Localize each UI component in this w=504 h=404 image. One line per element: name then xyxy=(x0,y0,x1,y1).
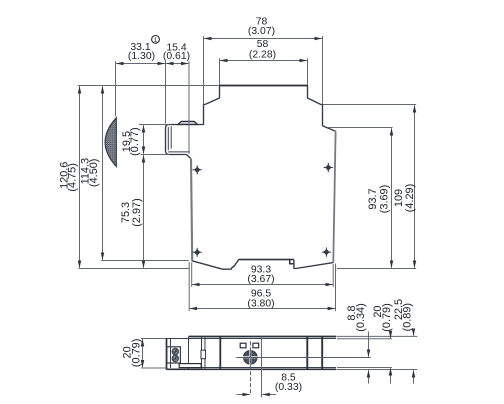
dimension 20 left xyxy=(141,339,166,369)
dimension 96.5 xyxy=(190,308,335,310)
ext lines right side (109 / 93.7) xyxy=(323,105,416,269)
ext lines 19.5 xyxy=(139,125,170,155)
svg-text:(0.79): (0.79) xyxy=(381,303,393,331)
svg-text:(3.07): (3.07) xyxy=(248,26,275,37)
ext lines 33.1 / 15.4 xyxy=(116,61,190,154)
svg-text:(4.75): (4.75) xyxy=(67,163,79,191)
latch inner lines xyxy=(168,126,190,152)
bottom notch xyxy=(290,260,294,264)
upper body outline xyxy=(220,86,336,132)
svg-text:(3.67): (3.67) xyxy=(247,274,274,285)
svg-text:(0.33): (0.33) xyxy=(275,382,302,393)
left long edge (light) xyxy=(191,158,192,260)
svg-text:(3.69): (3.69) xyxy=(378,185,390,213)
center screw xyxy=(244,351,258,365)
mounting cross mark bottom-right xyxy=(322,248,331,257)
footnote circle 1 xyxy=(152,36,160,44)
dimension 114.3 xyxy=(102,86,104,260)
dimension 15.4 xyxy=(166,63,188,65)
centerline horizontal xyxy=(236,357,370,359)
svg-text:(0.61): (0.61) xyxy=(163,51,190,62)
latch and left step xyxy=(166,86,220,159)
dimension 58 xyxy=(220,60,307,62)
ext lines 58 xyxy=(220,58,308,85)
side view body outline xyxy=(166,86,336,270)
sensing lens (hatched) xyxy=(105,118,116,167)
dimension 120.6 xyxy=(79,86,81,268)
svg-text:(1.30): (1.30) xyxy=(128,51,155,62)
svg-text:75.3: 75.3 xyxy=(120,202,132,223)
ext lines bottom dims 93.3 / 96.5 xyxy=(189,262,335,311)
dimension 78 xyxy=(204,38,322,40)
dimension 8.8 xyxy=(368,332,370,357)
svg-text:(0.79): (0.79) xyxy=(130,339,142,367)
mounting cross mark bottom-left xyxy=(193,248,202,257)
bottom view outline xyxy=(167,336,337,370)
mounting cross mark top-left xyxy=(193,165,202,174)
small square 2 xyxy=(253,343,259,348)
svg-text:(3.80): (3.80) xyxy=(247,298,274,309)
terminal screw 2 xyxy=(172,355,179,362)
svg-text:(0.89): (0.89) xyxy=(402,303,414,331)
dimension 93.7 xyxy=(391,128,393,268)
dimension 33.1 xyxy=(116,63,165,65)
dimension 22.5 xyxy=(413,330,415,336)
svg-text:(2.97): (2.97) xyxy=(131,198,143,226)
small square 1 xyxy=(240,343,246,348)
right side ext lines xyxy=(337,336,417,369)
bottom profile xyxy=(192,260,334,270)
centerline vertical dashed xyxy=(250,341,252,395)
svg-text:93.7: 93.7 xyxy=(367,188,379,209)
bottom plateau thick xyxy=(239,259,294,261)
svg-text:(0.34): (0.34) xyxy=(355,303,367,331)
side view top edge thick xyxy=(219,85,308,87)
latch bump xyxy=(178,121,198,124)
internal line 8.5 right xyxy=(261,337,263,398)
svg-text:(0.77): (0.77) xyxy=(129,127,141,155)
dimension 19.5 xyxy=(143,125,145,154)
right long edge (light) xyxy=(333,131,335,262)
ext line top of device xyxy=(78,85,219,87)
mounting cross mark top-right xyxy=(324,163,333,172)
svg-text:(4.50): (4.50) xyxy=(88,159,100,187)
svg-text:(2.28): (2.28) xyxy=(249,49,276,60)
ext line 114.3 bottom xyxy=(101,260,189,262)
dimension 75.3 xyxy=(143,155,145,268)
terminal screw 1 xyxy=(172,348,179,355)
svg-text:(4.29): (4.29) xyxy=(404,184,416,212)
terminal block xyxy=(167,347,181,363)
dimension 8.5 xyxy=(237,394,250,396)
dimension 109 xyxy=(414,105,416,268)
ext line bottom left (120.6 / 75.3) xyxy=(79,268,190,270)
svg-text:1: 1 xyxy=(154,37,158,44)
dimension 93.3 xyxy=(192,284,333,286)
tray xyxy=(179,364,201,368)
ext lines 78 xyxy=(204,36,323,104)
divider window xyxy=(201,350,206,359)
dimension 20 right xyxy=(390,332,392,339)
